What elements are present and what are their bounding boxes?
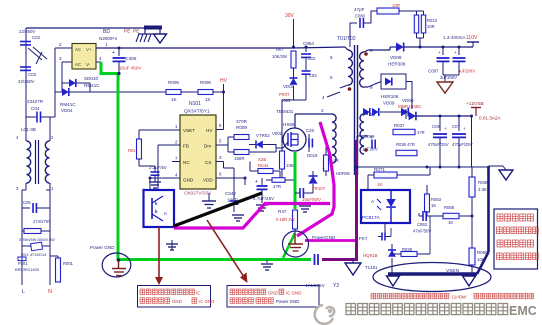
- capacitor Y2 471/275V: [314, 254, 316, 265]
- svg-text:T01/T02: T01/T02: [337, 36, 356, 42]
- resistor bleeder: [22, 230, 24, 232]
- svg-text:C063: C063: [417, 222, 428, 227]
- svg-text:10uF 450V: 10uF 450V: [119, 66, 142, 71]
- diode pair VD06 left: [363, 112, 368, 114]
- svg-text:270R: 270R: [236, 119, 248, 124]
- svg-text:HQ91B: HQ91B: [363, 253, 377, 258]
- svg-text:1K: 1K: [431, 203, 436, 208]
- svg-text:C20: C20: [306, 128, 315, 133]
- rectifier HER106 VD09: [381, 74, 406, 89]
- svg-text:470uF/25V: 470uF/25V: [452, 142, 473, 147]
- svg-text:FR0T: FR0T: [279, 92, 290, 97]
- wire green bridge to C306: [101, 62, 118, 74]
- snubber resistor R024: [377, 8, 399, 14]
- svg-text:RM41C: RM41C: [84, 83, 100, 88]
- snubber resistor R023 pair: [399, 10, 424, 12]
- svg-text:1K: 1K: [171, 97, 178, 102]
- ground C042: [232, 214, 244, 216]
- svg-text:2: 2: [321, 108, 324, 113]
- svg-text:C097: C097: [428, 69, 439, 74]
- ground triangle VSEN right: [463, 276, 476, 286]
- ground triangle VSEN left: [387, 276, 400, 286]
- svg-text:RM41C: RM41C: [60, 102, 76, 107]
- capacitor C097 a: [442, 46, 445, 49]
- arrow to box2: [207, 220, 244, 277]
- svg-text:3uF200V: 3uF200V: [458, 69, 475, 74]
- svg-text:R47: R47: [278, 209, 287, 214]
- wire bridge pin3: [62, 61, 72, 63]
- svg-text:VSEN: VSEN: [446, 268, 460, 274]
- note box right: [494, 209, 538, 269]
- ground mid rail: [266, 260, 268, 264]
- svg-text:C02: C02: [32, 35, 41, 40]
- svg-text:AC: AC: [75, 47, 81, 52]
- note box2 text: [230, 289, 235, 295]
- diode VD04: [55, 91, 62, 93]
- capacitor C05 470uF: [439, 115, 442, 118]
- PowerGND left ellipse: [102, 253, 131, 277]
- svg-text:FK7: FK7: [359, 236, 368, 241]
- svg-text:1K: 1K: [377, 182, 382, 187]
- svg-text:IC: IC: [196, 291, 201, 296]
- svg-text:HDR06: HDR06: [336, 171, 350, 176]
- resistor R060 3.3K: [471, 167, 473, 177]
- wire secondary gnd rail: [357, 166, 491, 168]
- svg-text:1.3-400mA: 1.3-400mA: [443, 35, 466, 40]
- svg-text:V-: V-: [86, 62, 91, 67]
- ground triangle top right: [489, 165, 504, 167]
- resistor 27R: [266, 179, 272, 181]
- svg-text:VTR02: VTR02: [256, 133, 270, 138]
- svg-text:22/250V: 22/250V: [18, 79, 34, 84]
- watermark logo: [315, 305, 335, 324]
- svg-text:3: 3: [59, 56, 62, 61]
- arrow to box1: [158, 227, 160, 278]
- svg-text:X2B: X2B: [258, 157, 266, 162]
- svg-text:VSET: VSET: [183, 128, 195, 133]
- svg-text:VD06: VD06: [402, 98, 414, 103]
- wire opto cathode: [384, 223, 386, 233]
- svg-text:6: 6: [330, 55, 333, 60]
- svg-text:0.18R 2W: 0.18R 2W: [276, 217, 295, 222]
- svg-text:470uF/25V: 470uF/25V: [428, 142, 449, 147]
- IC pin3 wire: [216, 161, 224, 163]
- svg-text:+12VSB: +12VSB: [466, 101, 484, 107]
- capacitor C040: [295, 192, 300, 194]
- red note bottom: [371, 293, 376, 299]
- svg-text:10R: 10R: [392, 3, 400, 8]
- interlock switch S1: [28, 48, 42, 60]
- resistor R063 1K: [425, 194, 430, 212]
- snubber R036: [396, 150, 417, 155]
- wire CS link: [249, 162, 251, 172]
- svg-text:GND: GND: [183, 178, 194, 183]
- svg-text:PE PE: PE PE: [124, 29, 139, 35]
- svg-text:L01-3B: L01-3B: [21, 127, 36, 132]
- svg-text:HER106: HER106: [381, 94, 399, 99]
- svg-text:+: +: [444, 126, 447, 131]
- svg-text:Y2: Y2: [333, 283, 339, 289]
- svg-text:+: +: [463, 126, 466, 131]
- svg-text:HS65: HS65: [283, 122, 295, 127]
- resistor R008 150R: [228, 151, 234, 153]
- wire bridge pin2: [55, 47, 72, 49]
- resistor 10K vertical: [280, 151, 285, 169]
- svg-text:1K: 1K: [448, 220, 453, 225]
- svg-text:R023: R023: [427, 18, 438, 23]
- svg-text:CS: CS: [205, 160, 211, 165]
- VSEN thick bar: [388, 272, 477, 276]
- wire magenta horizontal mid: [174, 204, 330, 229]
- ground mid: [202, 200, 216, 202]
- wire HV row: [90, 91, 166, 93]
- capacitor C0 4.7uF/25V: [244, 178, 246, 185]
- svg-text:10K/2W: 10K/2W: [272, 54, 287, 59]
- diode VD08 HER308: [396, 43, 404, 52]
- svg-text:V+: V+: [86, 47, 92, 52]
- capacitor C063: [419, 215, 423, 217]
- svg-text:Drv: Drv: [204, 144, 212, 149]
- VSEN ellipse: [373, 263, 491, 292]
- optocoupler U2 transistor side: [144, 190, 175, 227]
- wire pin8 to VD08: [368, 49, 390, 51]
- snubber resistor 1.3R: [324, 155, 329, 171]
- svg-text:QX3XT/5Y1: QX3XT/5Y1: [184, 109, 210, 115]
- svg-text:IC GND: IC GND: [199, 299, 214, 304]
- wire top PE line: [26, 27, 145, 29]
- svg-text:R063: R063: [431, 197, 442, 202]
- svg-text:IC GND: IC GND: [286, 291, 301, 296]
- note box2: [227, 286, 319, 308]
- svg-text:47nF/50V: 47nF/50V: [413, 229, 431, 234]
- wire pin7 to purple: [357, 135, 368, 137]
- svg-text:474/275V: 474/275V: [33, 219, 51, 224]
- svg-text:10uF/50V: 10uF/50V: [302, 197, 321, 202]
- ground C046: [149, 181, 161, 183]
- wire drain: [294, 114, 296, 128]
- svg-text:Power GND: Power GND: [276, 299, 299, 304]
- svg-text:GND: GND: [268, 291, 278, 296]
- ground VDD cap: [256, 204, 268, 206]
- svg-text:+: +: [112, 50, 115, 56]
- svg-text:VD09: VD09: [383, 101, 395, 106]
- svg-text:1: 1: [322, 165, 325, 170]
- svg-text:10R: 10R: [427, 24, 435, 29]
- svg-text:VD04: VD04: [61, 108, 73, 113]
- capacitor C07 470uF: [458, 115, 461, 118]
- svg-text:23427R: 23427R: [27, 99, 44, 104]
- diode VD06 MBR1045C: [401, 108, 408, 117]
- svg-text:BR53R21400: BR53R21400: [15, 267, 40, 272]
- transformer core: [354, 45, 356, 175]
- svg-text:27R: 27R: [273, 184, 281, 189]
- svg-text:R0x: R0x: [128, 148, 136, 153]
- main capacitor C306: [118, 48, 120, 56]
- svg-text:R001: R001: [63, 261, 74, 266]
- svg-text:HER308: HER308: [388, 62, 406, 67]
- svg-text:T1481: T1481: [365, 265, 378, 270]
- svg-text:30V: 30V: [285, 13, 295, 19]
- svg-text:5: 5: [330, 75, 333, 80]
- bridge pin4 wire: [96, 61, 101, 63]
- chassis ground hatched: [144, 30, 146, 35]
- svg-text:C306: C306: [126, 56, 137, 61]
- capacitor C097 b: [458, 46, 461, 49]
- resistor R001: [56, 258, 61, 282]
- svg-text:C07: C07: [452, 124, 461, 129]
- svg-text:0.01.3A2A: 0.01.3A2A: [479, 116, 501, 121]
- svg-text:R: R: [164, 211, 167, 216]
- svg-text:RV1 471KD14: RV1 471KD14: [21, 252, 47, 257]
- svg-text:C05: C05: [23, 200, 31, 205]
- varistor RV1: [31, 242, 43, 250]
- svg-text:4: 4: [99, 56, 102, 61]
- svg-text:N: N: [48, 289, 52, 295]
- wire green bottom rail: [118, 258, 311, 261]
- svg-text:R009: R009: [236, 125, 247, 130]
- IC pin6 wire: [216, 177, 245, 179]
- diode FR107 snubber: [309, 176, 318, 184]
- wire FB node: [157, 145, 159, 190]
- svg-text:F001: F001: [18, 261, 28, 266]
- svg-text:FB: FB: [183, 144, 189, 149]
- resistor R0xx VSET: [138, 130, 140, 139]
- wire feedback right vertical: [471, 116, 473, 167]
- MOSFET Q1 HS65: [283, 128, 306, 151]
- svg-text:+: +: [438, 50, 441, 55]
- svg-text:R006: R006: [200, 80, 211, 85]
- PowerGND right ellipse: [283, 231, 309, 257]
- svg-text:SD010: SD010: [84, 76, 98, 81]
- svg-text:4: 4: [322, 95, 325, 100]
- svg-text:C080: C080: [355, 14, 366, 19]
- svg-text:VDD: VDD: [203, 178, 213, 183]
- note box1 text: [140, 289, 145, 295]
- wire green diagonal to PowerGND: [283, 233, 295, 258]
- wire purple secondary return: [322, 140, 357, 260]
- svg-text:1nF1KV: 1nF1KV: [362, 147, 378, 152]
- svg-text:GND: GND: [172, 299, 182, 304]
- svg-text:V002: V002: [272, 131, 283, 136]
- note box right text: [497, 214, 503, 221]
- wire main HV bus: [119, 47, 294, 49]
- svg-text:N2009*4: N2009*4: [99, 36, 117, 41]
- diode VD010 SD010: [62, 82, 69, 84]
- ground snubber: [299, 205, 311, 207]
- wire magenta drain loop: [297, 122, 334, 236]
- transformer secondary upper winding: [364, 50, 368, 52]
- svg-text:HV: HV: [206, 128, 213, 133]
- svg-text:VD08: VD08: [390, 55, 402, 60]
- IC pin5 wire: [216, 144, 228, 146]
- wire magenta to PowerGND right: [305, 239, 356, 242]
- svg-text:22/250V: 22/250V: [19, 29, 35, 34]
- wire diode junction: [89, 83, 91, 92]
- wire black FB highlight: [174, 193, 262, 226]
- capacitor C03: [20, 66, 31, 68]
- svg-text:C03: C03: [28, 72, 37, 77]
- svg-text:222: 222: [308, 56, 316, 61]
- watermark text: [346, 304, 356, 315]
- svg-text:3uF200V: 3uF200V: [440, 75, 457, 80]
- wire green MOSFET source: [294, 152, 297, 209]
- svg-text:PowerGND: PowerGND: [312, 235, 336, 240]
- optocoupler U3 PC817A LED side: [361, 190, 410, 223]
- resistor R006: [198, 90, 213, 95]
- svg-text:FR107: FR107: [312, 186, 326, 191]
- svg-text:C05: C05: [432, 124, 441, 129]
- svg-text:HV: HV: [220, 78, 228, 84]
- svg-text:R071: R071: [374, 167, 385, 172]
- svg-text:10K: 10K: [286, 163, 294, 168]
- svg-text:1K: 1K: [205, 97, 212, 102]
- svg-text:Ob927V/33V: Ob927V/33V: [184, 191, 212, 197]
- svg-text:EMC: EMC: [509, 304, 537, 318]
- wire mains verticals: [21, 190, 23, 283]
- svg-text:R005: R005: [168, 80, 179, 85]
- earth ground triangle: [159, 30, 161, 35]
- resistor R071: [367, 175, 369, 190]
- svg-text:R037: R037: [394, 123, 405, 128]
- svg-text:R044: R044: [258, 163, 269, 168]
- svg-text:(1/4)W: (1/4)W: [452, 295, 467, 301]
- ground 110V triangle: [443, 74, 459, 76]
- svg-text:C042: C042: [225, 191, 236, 196]
- wire gate: [275, 144, 277, 152]
- wire left vertical x26: [25, 28, 27, 135]
- ground triangle Y2: [352, 259, 354, 263]
- svg-text:1: 1: [105, 42, 108, 47]
- svg-text:BD: BD: [103, 29, 110, 35]
- svg-text:AC: AC: [75, 62, 81, 67]
- svg-text:L: L: [22, 289, 25, 295]
- svg-text:+: +: [255, 179, 258, 185]
- capacitor C02: [20, 41, 31, 43]
- svg-text:110V: 110V: [466, 35, 478, 41]
- svg-text:150R: 150R: [234, 156, 245, 161]
- svg-text:N101: N101: [189, 101, 201, 107]
- chassis ground bar: [144, 26, 162, 30]
- bridge pin1 wire: [96, 47, 119, 49]
- svg-text:47pF: 47pF: [354, 7, 365, 12]
- wire thick sense bus: [487, 166, 490, 252]
- resistor R005: [166, 90, 181, 95]
- capacitor C04: [26, 116, 36, 118]
- svg-text:C04: C04: [31, 106, 40, 111]
- IC pin8 wire: [216, 129, 224, 131]
- bridge rectifier BD yellow box: [72, 44, 96, 70]
- svg-text:NC: NC: [183, 160, 190, 165]
- svg-text:47R: 47R: [417, 130, 425, 135]
- svg-text:D019: D019: [307, 153, 318, 158]
- svg-text:3.75M/5W 3M4/0.5W: 3.75M/5W 3M4/0.5W: [19, 238, 55, 242]
- svg-text:Power GND: Power GND: [90, 245, 115, 250]
- svg-text:TEM431: TEM431: [276, 109, 294, 114]
- note box1: [138, 286, 211, 308]
- svg-text:+: +: [454, 50, 457, 55]
- transformer primary upper winding: [345, 47, 348, 50]
- svg-text:PC817A: PC817A: [362, 215, 381, 221]
- resistor R056 10K: [471, 216, 473, 248]
- svg-text:3.3K: 3.3K: [478, 187, 487, 192]
- svg-text:R036 47R: R036 47R: [396, 142, 415, 147]
- resistor R044: [250, 170, 258, 172]
- wire R006-HV: [213, 91, 224, 93]
- ground on green rail: [171, 240, 173, 250]
- svg-text:2: 2: [59, 42, 62, 47]
- wire R005-R006: [181, 91, 198, 93]
- svg-text:R058: R058: [444, 205, 455, 210]
- svg-text:C954: C954: [303, 41, 314, 46]
